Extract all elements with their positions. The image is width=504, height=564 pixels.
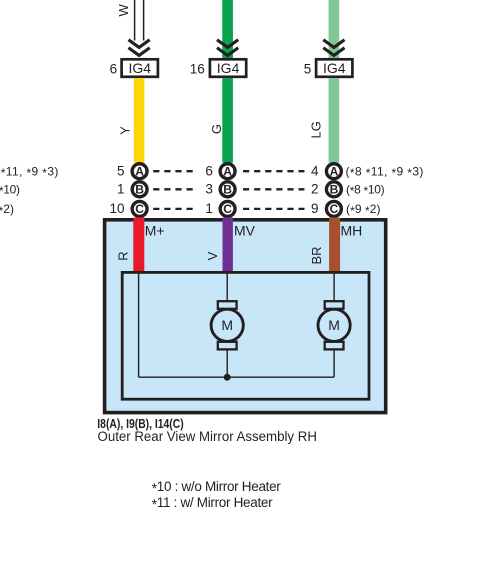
wire MH branch to motor 2 (333, 274, 335, 303)
svg-text:3: 3 (205, 182, 213, 197)
svg-text:6: 6 (205, 164, 213, 179)
svg-text:1: 1 (205, 201, 213, 216)
wire BR (brown stub) (329, 218, 340, 273)
svg-text:(*8 *10): (*8 *10) (0, 182, 20, 198)
dashes row B col2-col3 (243, 188, 305, 190)
svg-text:*10 : w/o Mirror Heater: *10 : w/o Mirror Heater (152, 479, 281, 496)
wire LG (light green, upper segment) (329, 0, 340, 59)
svg-text:9: 9 (311, 201, 319, 216)
svg-text:(*8 *11, *9 *3): (*8 *11, *9 *3) (346, 164, 424, 180)
svg-text:B: B (330, 183, 339, 197)
svg-text:A: A (223, 165, 232, 179)
inner sub-assembly rectangle (122, 272, 369, 399)
svg-text:M: M (328, 317, 340, 333)
svg-text:IG4: IG4 (129, 60, 152, 76)
connector IG4 pin 5 (304, 59, 353, 77)
dashes row A col1-col2 (153, 170, 193, 172)
svg-text:5: 5 (304, 62, 312, 77)
svg-text:A: A (135, 165, 144, 179)
svg-text:M: M (221, 317, 233, 333)
svg-text:(*9 *2): (*9 *2) (0, 202, 14, 218)
svg-text:G: G (209, 124, 224, 134)
svg-text:10: 10 (109, 201, 124, 216)
pin circle B col2 (pin 3) (205, 182, 235, 197)
wire W (white wire, outlined) (135, 0, 144, 41)
svg-text:MH: MH (341, 222, 363, 238)
wire motor 1 bottom to bus (226, 349, 228, 377)
junction dot (224, 374, 231, 381)
wire G (green, upper segment) (222, 0, 233, 59)
pin circle B col3 (pin 2) (311, 182, 341, 197)
svg-text:16: 16 (190, 62, 205, 77)
svg-text:A: A (330, 165, 339, 179)
arrow into IG4 col1 (129, 40, 150, 56)
pin circle A col3 (pin 4) (311, 164, 341, 179)
wire G (green, lower segment) (222, 78, 233, 163)
dashes row A col2-col3 (243, 170, 305, 172)
svg-text:Outer Rear View Mirror Assembl: Outer Rear View Mirror Assembly RH (98, 429, 317, 444)
connector IG4 pin 6 (110, 59, 158, 77)
svg-text:2: 2 (311, 182, 319, 197)
arrow into IG4 col2 (217, 40, 238, 56)
svg-text:B: B (223, 183, 232, 197)
svg-text:Y: Y (118, 126, 133, 135)
svg-text:5: 5 (117, 164, 125, 179)
svg-text:C: C (223, 202, 232, 216)
component box Outer Rear View Mirror Assembly RH (105, 220, 386, 413)
pin circle A col1 (pin 5) (117, 164, 147, 179)
wire Y (yellow) (134, 78, 145, 163)
svg-text:(*9 *2): (*9 *2) (346, 202, 381, 218)
pin circle B col1 (pin 1) (117, 182, 147, 197)
svg-text:V: V (205, 251, 220, 260)
motor M1 (vertical) (211, 301, 243, 349)
svg-text:LG: LG (308, 121, 323, 138)
svg-text:R: R (115, 251, 130, 260)
svg-text:(*8 *11, *9 *3): (*8 *11, *9 *3) (0, 164, 59, 180)
motor M2 (horizontal) (318, 301, 350, 349)
dashes row C col1-col2 (153, 208, 193, 210)
wire R (red stub) (133, 218, 144, 273)
wire MV branch to motor 1 (226, 274, 228, 303)
wire motor 2 bottom to bus (333, 349, 335, 377)
wire LG (light green, lower segment) (329, 78, 340, 163)
svg-text:IG4: IG4 (217, 60, 240, 76)
wire V (violet stub) (223, 218, 233, 273)
svg-text:B: B (135, 183, 144, 197)
wire M+ internal branch (138, 274, 140, 378)
dashes row B col1-col2 (153, 188, 193, 190)
pin circle C col1 (pin 10) (109, 201, 147, 216)
pin circle C col2 (pin 1) (205, 201, 235, 216)
svg-text:4: 4 (311, 164, 319, 179)
dashes row C col2-col3 (243, 208, 305, 210)
svg-text:6: 6 (110, 62, 118, 77)
pin circle A col2 (pin 6) (205, 164, 235, 179)
wire common bottom bus (139, 376, 335, 378)
svg-text:BR: BR (309, 246, 324, 264)
svg-text:C: C (135, 202, 144, 216)
svg-text:(*8 *10): (*8 *10) (346, 182, 385, 198)
svg-text:C: C (330, 202, 339, 216)
svg-text:1: 1 (117, 182, 125, 197)
svg-text:IG4: IG4 (323, 60, 346, 76)
svg-text:M+: M+ (145, 222, 165, 238)
arrow into IG4 col3 (323, 40, 344, 56)
connector IG4 pin 16 (190, 59, 246, 77)
svg-text:W: W (116, 4, 131, 17)
pin circle C col3 (pin 9) (311, 201, 341, 216)
svg-text:MV: MV (234, 222, 256, 238)
svg-text:*11 : w/ Mirror Heater: *11 : w/ Mirror Heater (152, 495, 273, 512)
